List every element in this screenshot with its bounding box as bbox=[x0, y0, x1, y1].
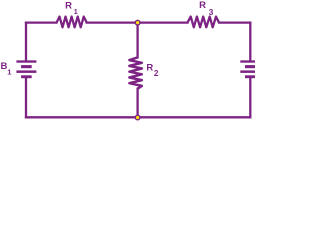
wire bottom segment bbox=[26, 116, 250, 118]
wire top middle segment bbox=[87, 21, 188, 23]
wire left lower (B1 bottom lead to bottom-left corner) bbox=[25, 78, 27, 117]
label R3 bbox=[199, 0, 214, 17]
wire middle lower (R2 to node B) bbox=[136, 89, 138, 118]
wire top right segment bbox=[219, 21, 250, 23]
svg-text:3: 3 bbox=[209, 8, 214, 17]
battery B1 bbox=[16, 60, 36, 78]
wire right upper (top-right corner to right battery) bbox=[249, 23, 251, 61]
battery B2 (right side, unlabeled, plates clipped at image edge) bbox=[240, 60, 260, 78]
wire right lower (right battery to bottom-right corner) bbox=[249, 78, 251, 117]
label R1 bbox=[65, 0, 78, 16]
label R2 bbox=[146, 63, 159, 79]
wire middle upper (node A to R2) bbox=[136, 23, 138, 58]
resistor R1 bbox=[57, 17, 87, 28]
svg-text:R: R bbox=[65, 0, 72, 11]
svg-text:R: R bbox=[146, 63, 153, 74]
node A (top junction dot) bbox=[135, 20, 140, 25]
svg-text:1: 1 bbox=[74, 7, 78, 16]
resistor R2 bbox=[129, 57, 141, 88]
svg-text:2: 2 bbox=[154, 69, 159, 78]
svg-text:R: R bbox=[199, 0, 206, 11]
label B1 bbox=[1, 61, 13, 76]
node B (bottom junction dot) bbox=[135, 115, 140, 120]
svg-text:1: 1 bbox=[7, 67, 12, 76]
wire left upper (B1 top lead to top-left corner) bbox=[25, 23, 27, 61]
wire top left segment bbox=[26, 21, 57, 23]
resistor R3 bbox=[188, 17, 220, 28]
